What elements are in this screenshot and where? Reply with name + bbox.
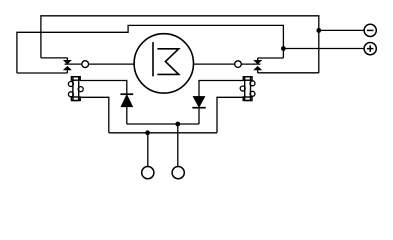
contact arrow S2b up xyxy=(254,66,261,69)
choke L1 turns xyxy=(68,82,83,97)
wire choke L1 bottom to bus xyxy=(80,97,109,133)
choke L1 body xyxy=(71,77,80,101)
junction inner node xyxy=(175,122,180,127)
wire plus terminal lead xyxy=(283,48,364,50)
wire choke L2 top to diode V2 xyxy=(199,81,245,97)
wire left lower feed xyxy=(17,72,68,74)
wire choke L2 bottom to bus xyxy=(217,97,245,133)
wire minus terminal lead xyxy=(319,29,364,31)
junction minus node xyxy=(316,28,321,33)
wire terminal 1 drop xyxy=(147,133,149,167)
terminal 2 xyxy=(172,167,184,179)
motor symbol zigzag xyxy=(157,49,178,75)
contact arrow S1b up xyxy=(64,66,71,69)
diode V2 xyxy=(192,96,205,124)
connector right brush xyxy=(235,61,242,68)
wire choke L1 top to diode V1 xyxy=(80,81,127,95)
motor M1 xyxy=(134,34,193,93)
wire right lower feed xyxy=(258,72,319,74)
choke L2 body xyxy=(243,77,252,101)
motor symbol bar xyxy=(152,42,154,76)
wire right upper feed xyxy=(258,58,284,61)
wire outer bottom bus xyxy=(109,132,217,134)
contact arrow S2a down xyxy=(254,60,261,63)
terminal plus xyxy=(364,43,376,55)
wire terminal 2 drop xyxy=(177,124,179,167)
junction plus node xyxy=(281,46,286,51)
choke L2 turns xyxy=(240,81,255,97)
wire left upper feed xyxy=(41,58,68,61)
junction bottom node xyxy=(145,130,150,135)
contact arrow S1a down xyxy=(64,60,71,63)
terminal 1 xyxy=(142,167,154,179)
wire right brush lead xyxy=(194,63,261,65)
wire top bus (minus net) xyxy=(41,16,319,73)
terminal minus xyxy=(364,24,376,36)
wire second bus (plus net, stepped) xyxy=(17,25,284,73)
wire inner bus (diode join) xyxy=(127,123,199,125)
wire left brush lead xyxy=(65,63,134,65)
connector left brush xyxy=(82,61,89,68)
diode V1 xyxy=(120,94,133,124)
